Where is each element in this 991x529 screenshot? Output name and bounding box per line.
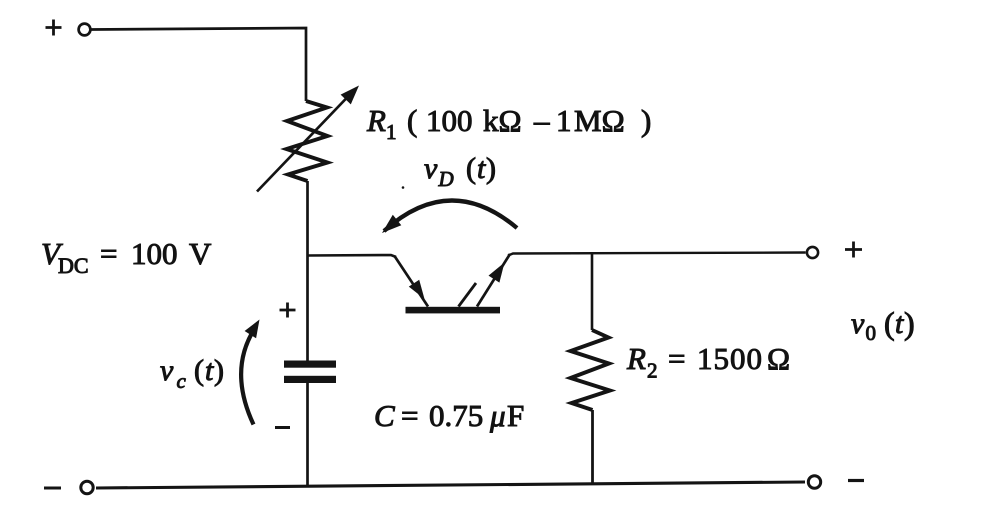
svg-text:(: ( xyxy=(194,354,204,387)
svg-text:t: t xyxy=(205,354,214,387)
svg-text:C: C xyxy=(374,398,395,433)
svg-text:R: R xyxy=(626,341,646,376)
svg-text:t: t xyxy=(895,307,904,340)
svg-text:=: = xyxy=(100,236,117,271)
svg-text:100: 100 xyxy=(131,236,178,271)
svg-text:–: – xyxy=(533,103,550,138)
svg-text:DC: DC xyxy=(58,253,89,278)
svg-text:1500: 1500 xyxy=(697,341,763,376)
svg-text:v: v xyxy=(851,307,865,340)
svg-text:): ) xyxy=(641,103,651,138)
svg-text:v: v xyxy=(424,152,438,185)
svg-text:(: ( xyxy=(407,103,417,138)
svg-text:v: v xyxy=(160,354,174,387)
svg-text:μ: μ xyxy=(489,398,506,433)
svg-text:F: F xyxy=(507,398,524,433)
svg-text:c: c xyxy=(177,369,187,393)
svg-text:0: 0 xyxy=(866,321,877,345)
svg-text:=: = xyxy=(401,398,418,433)
svg-text:=: = xyxy=(668,341,685,376)
svg-text:D: D xyxy=(438,167,454,191)
svg-text:V: V xyxy=(189,236,212,271)
svg-text:0.75: 0.75 xyxy=(429,398,483,433)
svg-text:): ) xyxy=(214,354,224,387)
svg-text:MΩ: MΩ xyxy=(574,103,625,138)
svg-text:100: 100 xyxy=(426,103,473,138)
svg-text:1: 1 xyxy=(556,103,572,138)
svg-text:2: 2 xyxy=(647,359,658,383)
svg-text:(: ( xyxy=(466,152,476,185)
svg-text:R: R xyxy=(366,103,386,138)
svg-text:1: 1 xyxy=(386,120,397,144)
svg-text:): ) xyxy=(904,305,915,341)
svg-text:kΩ: kΩ xyxy=(483,103,522,138)
svg-text:t: t xyxy=(477,152,486,185)
svg-text:(: ( xyxy=(884,305,895,341)
svg-text:Ω: Ω xyxy=(767,341,790,376)
svg-text:): ) xyxy=(486,152,496,185)
